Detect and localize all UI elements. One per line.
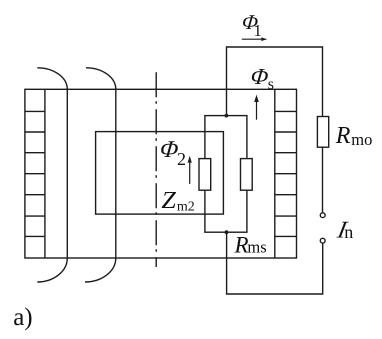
svg-text:ms: ms bbox=[247, 237, 266, 256]
svg-text:s: s bbox=[268, 76, 274, 93]
svg-text:a): a) bbox=[13, 304, 32, 331]
svg-text:R: R bbox=[234, 232, 249, 257]
svg-text:1: 1 bbox=[254, 21, 262, 40]
svg-text:mo: mo bbox=[351, 130, 372, 149]
svg-text:R: R bbox=[335, 123, 351, 149]
svg-text:Z: Z bbox=[161, 188, 176, 214]
svg-text:2: 2 bbox=[177, 149, 186, 169]
svg-text:n: n bbox=[344, 222, 353, 242]
svg-text:m2: m2 bbox=[177, 199, 195, 214]
